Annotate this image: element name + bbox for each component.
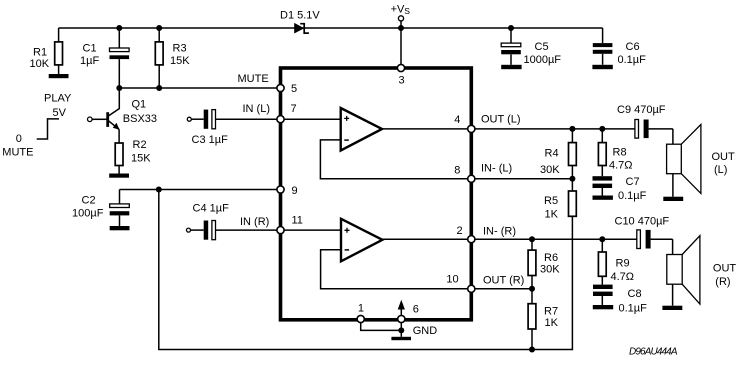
wire C9 to speaker L	[672, 129, 674, 144]
capacitor C6	[593, 41, 646, 66]
svg-text:6: 6	[413, 304, 419, 316]
ground C2	[110, 226, 130, 230]
svg-text:4.7Ω: 4.7Ω	[609, 160, 633, 172]
wire bottom feedback rail	[159, 190, 573, 350]
IC U1 body	[281, 68, 472, 320]
node R6 bottom / R7 top	[529, 286, 535, 292]
svg-text:D1 5.1V: D1 5.1V	[280, 10, 320, 22]
pin 5	[277, 84, 284, 91]
ground pin 6	[391, 337, 411, 340]
svg-text:IN (R): IN (R)	[240, 216, 269, 228]
wire pin7 to A1 + input	[284, 118, 340, 120]
svg-text:7: 7	[291, 103, 297, 115]
capacitor C1	[80, 43, 129, 68]
svg-text:5: 5	[291, 83, 297, 95]
resistor R9	[598, 239, 634, 284]
svg-text:+V: +V	[391, 4, 405, 16]
svg-text:15K: 15K	[170, 55, 190, 67]
wire pin 10 to R6/R7 (OUT R net)	[475, 288, 532, 290]
pin 4	[468, 125, 475, 132]
svg-text:10: 10	[446, 274, 458, 286]
svg-text:4: 4	[454, 114, 460, 126]
svg-text:C7: C7	[626, 176, 640, 188]
capacitor C3	[191, 110, 277, 146]
node R4 top	[569, 126, 575, 132]
svg-text:C4 1µF: C4 1µF	[193, 203, 230, 215]
ground speaker L	[663, 197, 683, 201]
op-amp A2 (right channel)	[341, 219, 382, 261]
resistor R1	[30, 42, 63, 74]
resistor R2	[115, 139, 151, 174]
wire R3 top lead	[158, 28, 160, 42]
svg-text:2: 2	[457, 225, 463, 237]
node pins 1/6 ground junction	[398, 327, 404, 333]
ground speaker R	[662, 306, 682, 310]
wire A2 output to pin 2	[382, 238, 467, 240]
resistor R5	[544, 179, 576, 221]
op-amp A1 (left channel)	[341, 108, 382, 151]
svg-text:11: 11	[292, 215, 303, 227]
svg-text:4.7Ω: 4.7Ω	[611, 271, 635, 283]
svg-text:30K: 30K	[540, 164, 560, 176]
pin 1	[357, 315, 364, 322]
svg-text:Q1: Q1	[132, 99, 147, 111]
svg-text:10K: 10K	[30, 58, 50, 70]
resistor R6	[528, 239, 560, 289]
node R3/rail junction	[156, 25, 162, 31]
svg-text:R1: R1	[33, 47, 47, 59]
svg-text:9: 9	[292, 185, 298, 197]
node R7 bottom rail junction	[529, 347, 535, 353]
svg-text:IN (L): IN (L)	[243, 103, 271, 115]
node R9/C10 junction	[599, 236, 605, 242]
svg-text:3: 3	[399, 75, 405, 87]
wire pin 8 to R4/R5 (IN- L net)	[475, 178, 573, 180]
capacitor C5	[501, 41, 561, 66]
svg-text:MUTE: MUTE	[238, 73, 269, 85]
svg-text:D96AU444A: D96AU444A	[629, 347, 678, 358]
wire C10 to speaker R	[672, 239, 674, 254]
svg-text:30K: 30K	[540, 264, 560, 276]
capacitor C4	[191, 203, 278, 240]
svg-text:C2: C2	[82, 195, 96, 207]
svg-text:0.1µF: 0.1µF	[619, 303, 648, 315]
capacitor C9	[617, 104, 673, 138]
ground R2	[109, 174, 129, 178]
pin 10	[468, 285, 475, 292]
zener diode D1	[280, 10, 320, 34]
capacitor C8	[593, 285, 647, 315]
pin 2	[468, 236, 475, 243]
wire A1 feedback to pin 8	[320, 140, 467, 179]
svg-text:R9: R9	[616, 257, 630, 269]
svg-text:R4: R4	[545, 148, 559, 160]
node bottom-rail drop junction	[156, 187, 162, 193]
wire pin 2 to C10 (IN- R net)	[475, 238, 637, 240]
svg-text:OUT (L): OUT (L)	[481, 114, 521, 126]
svg-text:C10 470µF: C10 470µF	[615, 216, 670, 228]
arrow into pin 6	[398, 300, 405, 316]
svg-text:(R): (R)	[715, 276, 730, 288]
svg-text:(L): (L)	[714, 164, 727, 176]
node C1/Q1 collector junction	[116, 85, 122, 91]
resistor R3	[155, 42, 190, 88]
ground C7	[593, 196, 613, 200]
pin 3	[397, 64, 404, 71]
input terminal C4	[187, 228, 191, 232]
wire pin 4 to C9 (OUT L net)	[475, 128, 635, 130]
svg-text:R7: R7	[544, 306, 558, 318]
svg-text:IN- (R): IN- (R)	[483, 225, 516, 237]
speaker OUT L	[667, 125, 735, 197]
speaker OUT R	[667, 236, 737, 306]
wire C5 top lead	[510, 28, 512, 43]
svg-text:IN- (L): IN- (L)	[481, 163, 512, 175]
pin 7	[277, 116, 284, 123]
svg-text:OUT (R): OUT (R)	[483, 274, 524, 286]
wire R1 top lead	[58, 28, 60, 42]
node R4 bottom / R5 top	[569, 176, 575, 182]
wire pin 6 to ground	[400, 323, 402, 337]
svg-text:15K: 15K	[131, 153, 151, 165]
svg-text:R3: R3	[173, 43, 187, 55]
svg-text:MUTE: MUTE	[2, 146, 33, 158]
svg-text:1000µF: 1000µF	[524, 54, 562, 66]
capacitor C7	[593, 176, 647, 202]
wire pin11 to A2 + input	[284, 229, 340, 231]
svg-text:C3 1µF: C3 1µF	[192, 134, 229, 146]
step waveform play/mute symbol	[37, 119, 59, 139]
node R3 bottom junction	[156, 85, 162, 91]
capacitor C2	[72, 190, 129, 227]
svg-text:1K: 1K	[545, 209, 559, 221]
ground R1	[49, 74, 69, 78]
node R6 top	[529, 236, 535, 242]
node R8/C9 junction	[599, 126, 605, 132]
pin 9	[277, 186, 284, 193]
svg-text:R5: R5	[544, 195, 558, 207]
wire C1 bottom to MUTE wire	[118, 59, 120, 88]
svg-text:C1: C1	[83, 43, 97, 55]
ground C6	[592, 65, 612, 69]
wire C1 top lead	[118, 28, 120, 48]
wire Q1 emitter to R2	[118, 129, 120, 143]
resistor R7	[528, 289, 559, 350]
svg-text:C6: C6	[626, 41, 640, 53]
svg-text:R2: R2	[133, 139, 147, 151]
wire C2 to pin 9	[120, 189, 278, 191]
wire A1 output to pin 4	[382, 128, 468, 130]
svg-text:C9 470µF: C9 470µF	[617, 104, 666, 116]
resistor R8	[598, 129, 632, 176]
wire top +Vs rail	[59, 27, 603, 29]
svg-text:OUT: OUT	[713, 263, 737, 275]
svg-text:C5: C5	[535, 41, 549, 53]
node C5 rail junction	[508, 25, 514, 31]
svg-text:BSX33: BSX33	[123, 113, 157, 125]
svg-text:1µF: 1µF	[80, 55, 99, 67]
ground C5	[501, 65, 521, 69]
ground C8	[593, 305, 613, 309]
wire MUTE net to pin 5	[119, 87, 277, 89]
svg-text:R6: R6	[544, 252, 558, 264]
node +Vs rail junction	[398, 25, 404, 31]
pin 8	[468, 175, 475, 182]
capacitor C10	[615, 216, 673, 249]
wire +Vs to pin 3	[400, 21, 402, 64]
svg-text:5V: 5V	[53, 107, 67, 119]
svg-text:1K: 1K	[545, 317, 559, 329]
svg-text:0.1µF: 0.1µF	[618, 54, 647, 66]
svg-text:R8: R8	[613, 147, 627, 159]
input terminal C3	[187, 117, 191, 121]
svg-text:1: 1	[358, 302, 364, 314]
wire A2 feedback to pin 10	[321, 250, 468, 289]
pin 6	[398, 315, 405, 322]
svg-text:100µF: 100µF	[72, 208, 104, 220]
svg-text:S: S	[404, 6, 410, 16]
resistor R4	[540, 129, 576, 179]
+Vs supply terminal	[391, 4, 411, 21]
wire rail corner to C6	[602, 28, 604, 43]
wire pin 1 to ground junction	[361, 323, 402, 331]
svg-text:OUT: OUT	[712, 151, 736, 163]
node C1/rail junction	[116, 25, 122, 31]
svg-text:0: 0	[16, 133, 22, 145]
pin 11	[277, 227, 284, 234]
svg-text:GND: GND	[413, 325, 438, 337]
svg-text:0.1µF: 0.1µF	[618, 190, 647, 202]
transistor Q1 BSX33	[88, 88, 158, 130]
svg-text:C8: C8	[628, 288, 642, 300]
svg-text:8: 8	[454, 164, 460, 176]
svg-text:PLAY: PLAY	[44, 93, 72, 105]
